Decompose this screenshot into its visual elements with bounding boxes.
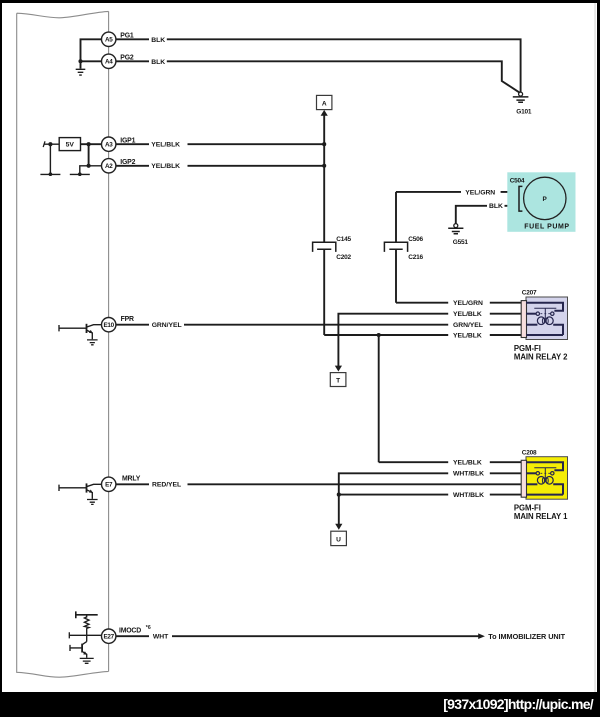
pin E27 (102, 629, 116, 643)
relay1 coil (537, 477, 545, 485)
svg-text:FPR: FPR (121, 316, 134, 323)
wire relay1 pin4 WHT/BLK (339, 494, 522, 496)
wire branch to logic ground 1 (40, 144, 60, 174)
svg-text:GRN/YEL: GRN/YEL (453, 322, 483, 329)
transistor Q-IMOCD (81, 644, 83, 653)
wire vertical to arrow A (323, 115, 325, 335)
svg-text:To IMMOBILIZER UNIT: To IMMOBILIZER UNIT (488, 632, 565, 641)
svg-text:C504: C504 (510, 178, 525, 185)
pin A3 (102, 137, 116, 151)
pin E7 (102, 477, 116, 491)
wire resistor to node (86, 629, 88, 642)
ground G101 (513, 92, 529, 102)
svg-text:GRN/YEL: GRN/YEL (152, 322, 182, 329)
wire A2 to logic ground 2 (70, 166, 102, 175)
wire FPR GRN/YEL full run (116, 324, 522, 326)
relay PGM-FI MAIN RELAY 1 (514, 449, 568, 521)
pin A2 (102, 159, 116, 173)
off-page arrow U (331, 524, 347, 546)
svg-text:YEL/GRN: YEL/GRN (465, 189, 495, 196)
svg-text:C145: C145 (336, 236, 351, 243)
5V reference box (59, 138, 80, 151)
svg-text:U: U (336, 537, 341, 544)
svg-text:G551: G551 (453, 239, 469, 246)
relay1 armature (534, 468, 556, 479)
svg-text:BLK: BLK (151, 37, 165, 44)
relay2 armature (534, 308, 556, 319)
wire YEL/GRN to fuel pump (396, 191, 518, 193)
svg-text:IGP1: IGP1 (120, 137, 135, 144)
wire PG1 BLK (115, 39, 520, 92)
svg-text:P: P (542, 196, 547, 203)
svg-text:WHT: WHT (153, 634, 169, 641)
svg-text:E10: E10 (104, 322, 115, 329)
pin name labels (119, 32, 151, 634)
svg-text:E27: E27 (104, 633, 115, 640)
fuel pump assembly (507, 172, 575, 232)
frame bottom watermark bar (0, 692, 600, 717)
svg-text:[937x1092]http://upic.me/: [937x1092]http://upic.me/ (443, 696, 594, 712)
svg-text:MRLY: MRLY (122, 476, 141, 483)
relay2 common (526, 313, 536, 315)
transistor Q-FPR inside ECM (59, 324, 102, 345)
fuel pump motor circle (524, 177, 566, 219)
svg-text:T: T (336, 378, 340, 385)
inline connector C506/C216 (384, 242, 407, 252)
connector id labels (336, 109, 532, 261)
wire 5V box to A3 (81, 143, 102, 145)
relay2 contact points (536, 312, 539, 315)
svg-text:C207: C207 (522, 290, 537, 297)
wire IGP1 YEL/BLK (115, 143, 324, 145)
wire relay2 pin2 YEL/BLK with T branch (338, 314, 521, 367)
wire relay2 pin1 YEL/GRN (396, 302, 521, 304)
svg-text:YEL/BLK: YEL/BLK (453, 460, 482, 467)
relay2 contact feed (526, 303, 563, 311)
svg-text:PG1: PG1 (120, 32, 134, 39)
wire BLK fuel pump to ground (456, 206, 519, 224)
svg-text:C202: C202 (336, 254, 351, 261)
relay1 contact points (536, 472, 539, 475)
ECM pin circles (102, 32, 116, 643)
relay1 contact feed (526, 462, 563, 470)
relay1 coil side b (526, 484, 563, 494)
svg-text:BLK: BLK (489, 203, 503, 210)
svg-text:*6: *6 (146, 625, 151, 631)
transistor Q-MRLY inside ECM (59, 483, 102, 504)
svg-text:A: A (322, 101, 327, 108)
ground (PG ground) (76, 69, 86, 75)
svg-text:MAIN RELAY 2: MAIN RELAY 2 (514, 352, 568, 361)
wire A5 PG1 to left ground (81, 39, 103, 68)
svg-text:MAIN RELAY 1: MAIN RELAY 1 (514, 512, 568, 521)
off-page arrow A (317, 95, 332, 115)
resistor R-IMOCD (84, 615, 89, 629)
wire IGP2 YEL/BLK (115, 165, 324, 167)
svg-text:WHT/BLK: WHT/BLK (453, 492, 484, 499)
relay1 common (526, 472, 536, 474)
wire relay1 pin1 YEL/BLK (379, 461, 522, 463)
svg-text:BLK: BLK (151, 59, 165, 66)
svg-text:YEL/BLK: YEL/BLK (453, 311, 482, 318)
ground (IMOCD emitter) (80, 658, 94, 663)
svg-text:A4: A4 (105, 59, 113, 66)
svg-text:G101: G101 (516, 109, 532, 116)
wire IMOCD base line with tick (69, 632, 101, 638)
svg-text:5V: 5V (66, 142, 75, 149)
wire PG2 BLK (115, 61, 519, 92)
svg-text:A3: A3 (105, 141, 113, 148)
relay2 coil side b (526, 325, 563, 335)
svg-text:IMOCD: IMOCD (119, 628, 141, 635)
connector C208 strip (521, 460, 526, 497)
connector C207 strip (521, 301, 526, 338)
svg-text:FUEL PUMP: FUEL PUMP (524, 224, 569, 231)
wire colour labels (151, 37, 503, 641)
frame right bar (597, 0, 600, 717)
wire IMOCD WHT to immobilizer (116, 635, 479, 637)
arrow to immobilizer unit (478, 633, 485, 639)
pin E10 (102, 318, 116, 332)
wire relay1 pin2 WHT/BLK with U branch (339, 473, 522, 524)
relay PGM-FI MAIN RELAY 2 (514, 290, 568, 362)
connector C504 bracket (519, 186, 522, 211)
svg-text:C216: C216 (408, 254, 423, 261)
ECM/PCM connector body (wavy-edge box) (17, 11, 109, 677)
svg-text:C208: C208 (522, 449, 537, 456)
svg-text:IGP2: IGP2 (120, 159, 135, 166)
relay1 coil side a (526, 483, 537, 485)
wire branch down to relay1 pin1 (378, 335, 380, 462)
svg-text:YEL/BLK: YEL/BLK (453, 332, 482, 339)
svg-text:RED/YEL: RED/YEL (152, 482, 181, 489)
svg-text:PG2: PG2 (120, 54, 134, 61)
wire MRLY RED/YEL full run (116, 483, 522, 485)
svg-text:C506: C506 (408, 236, 423, 243)
ground G551 (448, 224, 463, 234)
svg-text:YEL/BLK: YEL/BLK (151, 163, 180, 170)
relay2 coil side a (526, 324, 537, 326)
pin A4 (102, 54, 116, 68)
pin A5 (102, 32, 116, 46)
wire IGP1 5V feed with tick (43, 141, 59, 147)
wire relay2 pin4 YEL/BLK from A branch (324, 334, 521, 336)
svg-text:A5: A5 (105, 37, 113, 44)
inline connector C145/C202 (313, 242, 336, 252)
relay2 coil (537, 317, 545, 325)
svg-text:A2: A2 (105, 163, 113, 170)
frame top bar (0, 0, 600, 3)
faint page edge line (594, 3, 597, 692)
svg-text:E7: E7 (105, 482, 113, 489)
frame left bar (0, 0, 2, 717)
svg-text:YEL/BLK: YEL/BLK (151, 142, 180, 149)
wire A3-A2 link (88, 144, 90, 166)
wire fuel pump feed vertical (395, 192, 397, 303)
IMOCD driver circuit inside ECM (69, 611, 101, 663)
svg-text:YEL/GRN: YEL/GRN (453, 300, 483, 307)
off-page arrow T (330, 366, 346, 387)
svg-text:WHT/BLK: WHT/BLK (453, 471, 484, 478)
